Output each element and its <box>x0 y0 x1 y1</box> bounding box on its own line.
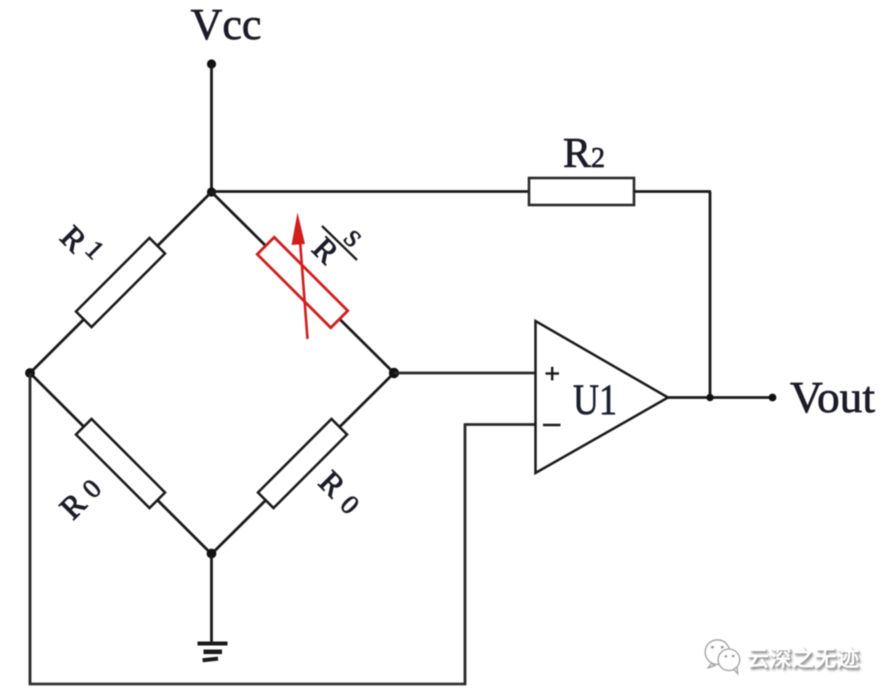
wire left node down <box>29 373 32 685</box>
ground <box>198 642 228 646</box>
node Vout terminal dot <box>769 394 777 402</box>
resistor R1 <box>76 238 165 327</box>
wire bridge top to R2 <box>212 190 531 193</box>
resistor Rs (red, variable) <box>257 237 348 328</box>
node feedback junction dot <box>706 394 713 401</box>
resistor R0 (left) <box>76 419 165 508</box>
svg-text:Vcc: Vcc <box>191 0 262 49</box>
wire bridge edge bottom-right <box>212 373 395 554</box>
node bridge bottom dot <box>207 549 217 559</box>
label R0 right <box>312 463 353 504</box>
resistor R0 (right) <box>258 419 347 508</box>
op-amp minus sign <box>543 424 561 426</box>
node bridge top junction dot <box>207 187 216 196</box>
node bridge left dot <box>25 368 35 378</box>
wire R2 to right corner <box>634 190 711 193</box>
wire bottom node to ground <box>210 554 213 643</box>
label R1 <box>54 218 95 259</box>
wire bridge edge bottom-left <box>30 373 212 554</box>
wire bottom horizontal <box>29 683 466 686</box>
wire minus input horizontal <box>464 423 537 426</box>
op-amp U1 <box>536 321 669 473</box>
wire Vcc down to bridge top <box>210 64 213 192</box>
arrow through Rs <box>300 238 308 339</box>
Vcc terminal dot <box>207 59 216 68</box>
op-amp plus sign <box>546 372 560 374</box>
wire feedback-left vertical to minus input <box>464 425 467 686</box>
wire bridge edge top-right <box>212 192 395 373</box>
stroke across Rs label <box>322 226 357 260</box>
wire op-amp output <box>668 396 772 399</box>
wire bridge edge top-left <box>30 192 212 373</box>
watermark logo (chat bubbles) <box>700 636 744 678</box>
label R0 left <box>52 485 93 526</box>
node bridge right dot <box>389 368 399 378</box>
svg-text:Vout: Vout <box>790 373 875 422</box>
wire right node to op-amp plus input <box>394 372 537 375</box>
label Rs <box>306 230 347 271</box>
wire feedback vertical <box>709 192 712 399</box>
watermark text <box>747 641 885 671</box>
svg-text:U1: U1 <box>573 377 617 424</box>
resistor R2 <box>529 178 634 205</box>
